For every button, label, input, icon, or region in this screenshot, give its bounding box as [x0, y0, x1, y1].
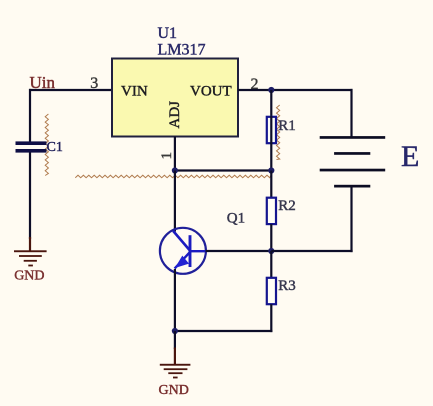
- battery E label: [401, 140, 419, 173]
- svg-text:1: 1: [159, 152, 175, 160]
- svg-text:VIN: VIN: [121, 83, 148, 99]
- DRC marker zigzag vertical at R1: [277, 105, 280, 160]
- ground GND bottom label: [159, 383, 189, 398]
- resistor R1: [267, 116, 276, 144]
- svg-text:R1: R1: [278, 118, 296, 134]
- wire R2 to base node: [270, 224, 272, 251]
- capacitor C1 plates: [16, 141, 47, 152]
- wire Uin to VIN pin: [29, 89, 112, 91]
- regulator U1 LM317 body: [112, 59, 238, 137]
- svg-text:Uin: Uin: [30, 73, 56, 92]
- junction at VOUT/R1: [268, 87, 274, 93]
- resistor R3 label: [278, 278, 296, 294]
- wire R3 bottom: [270, 304, 272, 332]
- DRC marker zigzag horizontal: [75, 175, 271, 178]
- junction base/R2/R3 node: [268, 248, 274, 254]
- wire ADJ horizontal run: [175, 169, 271, 171]
- U1 designator: [158, 25, 178, 42]
- pin name VIN: [121, 83, 148, 99]
- ground GND left: [14, 237, 47, 266]
- svg-text:LM317: LM317: [158, 42, 206, 59]
- svg-text:ADJ: ADJ: [167, 101, 183, 129]
- pin number 1 (rotated): [159, 152, 175, 160]
- pin number 2: [251, 76, 259, 93]
- resistor R2 label: [278, 198, 296, 214]
- svg-text:GND: GND: [14, 269, 44, 284]
- svg-text:GND: GND: [159, 383, 189, 398]
- wire battery top drop: [350, 89, 352, 138]
- svg-text:VOUT: VOUT: [190, 83, 232, 99]
- resistor R1 label: [278, 118, 296, 134]
- svg-text:R2: R2: [278, 198, 296, 214]
- junction ADJ node: [172, 167, 178, 173]
- pin name VOUT: [190, 83, 232, 99]
- wire bottom run to emitter node: [175, 330, 273, 332]
- wire emitter node to GND: [174, 331, 176, 349]
- transistor Q1: [160, 228, 206, 274]
- wire R3 top: [270, 251, 272, 278]
- capacitor C1 label: [47, 140, 63, 155]
- wire junction to R2: [270, 171, 272, 199]
- wire collector drop: [174, 171, 176, 232]
- wire R1 to mid junction: [270, 143, 272, 170]
- battery E plates: [320, 136, 386, 187]
- wire base node to battery bottom: [271, 250, 352, 252]
- svg-text:Q1: Q1: [227, 211, 245, 227]
- wire junction to R1: [270, 90, 272, 117]
- transistor Q1 label: [227, 211, 245, 227]
- resistor R3: [267, 278, 276, 304]
- pin number 3: [90, 75, 98, 92]
- pin ADJ wire: [174, 137, 176, 171]
- wire emitter drop: [174, 269, 176, 331]
- wire battery bottom drop: [350, 186, 352, 252]
- svg-text:E: E: [401, 140, 419, 173]
- ground GND left label: [14, 269, 44, 284]
- wire base to junction: [206, 250, 272, 252]
- wire C1 to GND: [29, 153, 31, 240]
- svg-text:R3: R3: [278, 278, 296, 294]
- wire VOUT to battery: [238, 89, 353, 91]
- svg-text:C1: C1: [47, 140, 63, 155]
- junction emitter/GND node: [172, 328, 178, 334]
- junction R1/R2 node: [268, 167, 274, 173]
- svg-text:3: 3: [90, 75, 98, 92]
- wire Uin corner down to C1: [29, 89, 31, 142]
- DRC marker zigzag vertical at C1: [45, 114, 48, 176]
- node Uin label: [30, 73, 56, 92]
- svg-text:U1: U1: [158, 25, 178, 42]
- resistor R2: [267, 198, 276, 224]
- U1 value LM317: [158, 42, 206, 59]
- ground GND bottom: [160, 348, 191, 379]
- pin name ADJ (rotated): [167, 101, 183, 129]
